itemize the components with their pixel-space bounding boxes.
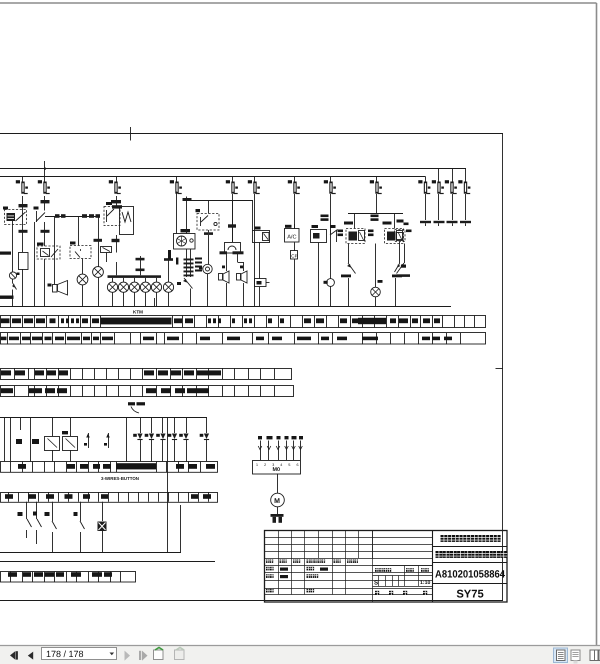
cluster lamp HL4 <box>118 282 128 306</box>
relay K11 <box>16 418 60 462</box>
frame centering mark top <box>130 127 132 141</box>
sub bus wire <box>348 214 403 229</box>
diode D1 <box>133 418 142 462</box>
bottom connector labels <box>8 572 112 577</box>
wire horn feed <box>54 216 56 284</box>
svg-text:6: 6 <box>297 463 299 467</box>
fuse F7 <box>288 177 300 194</box>
cluster lamp HL8 <box>163 255 173 307</box>
connector M0 pins <box>258 441 302 461</box>
sensor box U2 <box>98 502 107 552</box>
page number box <box>42 648 117 660</box>
pin arrow P2 <box>104 433 110 448</box>
AC amplifier box <box>285 225 300 242</box>
ignition start contact <box>177 278 193 307</box>
table row 3 <box>1 368 292 380</box>
svg-text:M0: M0 <box>273 467 281 473</box>
title block header labels <box>266 560 358 563</box>
speaker LS1 <box>219 266 230 307</box>
fuse F13 <box>458 169 470 194</box>
wire fuse F6 down <box>254 194 256 307</box>
title block outer border <box>265 531 508 603</box>
ignition switch S10 <box>174 229 196 249</box>
button next view <box>175 648 185 660</box>
fuse F9 <box>370 177 382 194</box>
fuse F11 <box>432 169 444 194</box>
motor mount symbol <box>271 507 284 523</box>
relay K1 contact <box>34 207 46 223</box>
signal table row 1 <box>1 316 486 328</box>
relay K4 box <box>120 207 134 235</box>
junction mark node D <box>19 200 123 233</box>
work lamp HL1 <box>77 259 88 307</box>
relay K2 <box>37 222 60 259</box>
lamp bank feed wires <box>113 278 157 282</box>
wire left drop 1 <box>12 221 14 307</box>
svg-text:KTM: KTM <box>133 310 143 315</box>
title block left grid <box>265 530 434 602</box>
connector row A <box>1 462 218 473</box>
drawing number A810201058864 <box>435 569 505 581</box>
fuse F5 <box>226 177 238 194</box>
wire K2 coil down <box>44 259 46 307</box>
toolbar background <box>0 645 600 664</box>
svg-text:1:10: 1:10 <box>420 580 430 586</box>
diode D3 <box>156 418 165 462</box>
svg-text:CP: CP <box>291 254 297 259</box>
wiper motor M1 <box>271 493 285 507</box>
cluster lamp HL7 <box>151 282 161 306</box>
svg-text:3-WIRES-BUTTON: 3-WIRES-BUTTON <box>101 476 139 481</box>
svg-text:A810201058864: A810201058864 <box>435 569 505 581</box>
horn H1 <box>48 281 68 296</box>
diode D2 <box>145 418 154 462</box>
power bus B+ wire <box>0 168 466 170</box>
label twin group right <box>371 215 379 221</box>
fuse F3 <box>109 177 121 194</box>
svg-text:5: 5 <box>288 463 290 467</box>
lower bus wire <box>0 417 207 419</box>
wire fuse F9 down <box>376 194 378 214</box>
horn unit box <box>225 206 241 253</box>
connector row A labels <box>18 463 215 469</box>
switch S5 <box>392 244 405 278</box>
label DLC node <box>128 402 145 413</box>
pdf page top edge <box>0 2 597 4</box>
junction mark node A <box>19 196 28 252</box>
svg-text:1: 1 <box>256 463 258 467</box>
signal table row 2 labels <box>1 337 453 341</box>
wire ignition feed <box>183 197 192 234</box>
relay K12 <box>62 418 78 462</box>
label resistor <box>0 252 11 255</box>
svg-text:M: M <box>274 498 280 505</box>
switch S9 <box>45 502 57 552</box>
pin arrow P1 <box>84 433 90 448</box>
buzzer B2 <box>199 264 212 306</box>
model SY75 <box>456 589 483 601</box>
svg-text:3: 3 <box>272 463 274 467</box>
bottom connector row <box>1 572 136 583</box>
frame centering mark right <box>496 368 504 370</box>
svg-text:4: 4 <box>280 463 282 467</box>
fuse F2 <box>38 177 50 194</box>
cluster lamp HL3 <box>107 282 117 306</box>
power bus ACC wire <box>0 176 426 178</box>
connector pair K5 out <box>204 230 213 264</box>
connector M0 pin labels <box>258 436 303 439</box>
speaker LS2 <box>237 266 248 307</box>
cluster lamp HL6 <box>140 282 150 306</box>
component U1 <box>255 243 270 307</box>
relay K6 <box>253 227 270 243</box>
fuse F6 <box>248 177 260 194</box>
button previous view <box>154 648 164 660</box>
wire fuse F7 down <box>294 194 296 229</box>
drawing title <box>436 551 508 558</box>
relay K7 <box>311 225 327 307</box>
layout facing pages <box>590 650 600 661</box>
compressor clutch C1 <box>324 279 335 307</box>
label bottom left <box>0 296 14 299</box>
title block right rows <box>433 547 507 584</box>
svg-text:2: 2 <box>264 463 266 467</box>
relay K8 labels <box>338 222 354 237</box>
svg-text:SY75: SY75 <box>456 589 483 601</box>
relay K9 labels <box>368 222 412 237</box>
connector M0 <box>253 461 301 475</box>
button last page <box>139 651 148 661</box>
ground bus wire <box>0 505 181 553</box>
label KTM <box>133 310 143 315</box>
section divider wire <box>0 561 215 563</box>
contact K7 <box>330 225 338 242</box>
indicator lamp HL9 <box>371 244 383 307</box>
wire M0 to motor <box>277 474 279 494</box>
switch box S3 <box>70 242 91 259</box>
title block row labels <box>266 567 328 593</box>
fuse F1 <box>16 177 28 194</box>
fuse F10 <box>418 177 430 194</box>
relay K10 <box>395 220 409 242</box>
wire fuse F5 down <box>232 194 234 242</box>
button first page <box>10 651 18 659</box>
wire fuse F8 down <box>330 194 332 279</box>
switch S4 <box>341 244 356 278</box>
connector row B <box>1 492 218 502</box>
wire fuse F4 down <box>176 192 178 234</box>
contact box X1 <box>101 247 112 253</box>
relay K8 <box>346 229 365 244</box>
diode D4 <box>168 418 177 462</box>
fuse F4 <box>170 177 182 194</box>
lower bus riser wire <box>167 418 169 552</box>
fuse F8 <box>324 177 336 194</box>
connector row B labels <box>5 494 211 499</box>
junction mark K4 <box>112 239 120 242</box>
rail stub wires <box>155 278 396 307</box>
stage mark sub table <box>373 566 434 587</box>
signal table row 1 labels <box>1 318 441 325</box>
title block company column divider <box>432 530 434 602</box>
relay K3 <box>104 196 120 226</box>
button previous page <box>28 652 33 660</box>
stage mark labels <box>374 568 430 595</box>
drawing frame border <box>0 134 503 602</box>
button next page <box>125 651 131 661</box>
sensor B1 <box>9 272 19 279</box>
ignition positions <box>168 249 202 277</box>
label 3-WIRES-BUTTON <box>101 476 139 481</box>
relay K5 <box>196 209 220 230</box>
svg-text:A/C: A/C <box>287 234 296 241</box>
wire AC top <box>294 224 296 229</box>
diode D6 <box>200 418 209 462</box>
work lamp HL2 <box>93 222 104 307</box>
table row 4 <box>1 386 294 397</box>
table row 3 labels <box>1 370 221 375</box>
fuse F12 <box>445 169 457 194</box>
wire lamp bus <box>78 246 80 248</box>
switch S6 <box>395 242 407 273</box>
layout continuous <box>571 650 580 664</box>
speaker wires <box>220 251 244 271</box>
switch S7 <box>18 502 32 538</box>
connector pair node C <box>45 214 100 245</box>
wire K4 down <box>107 235 117 262</box>
terminal bar S6 <box>397 274 411 277</box>
relay K1 <box>3 207 27 225</box>
switch S2 <box>12 279 17 294</box>
lamp bank bus bar <box>108 256 162 278</box>
switch S11 <box>74 502 85 552</box>
junction mark node B <box>41 196 50 211</box>
bus feed stub node <box>44 161 46 177</box>
svg-text:S: S <box>374 579 378 586</box>
fuse cluster output terminals <box>420 194 471 226</box>
wires mid lower <box>126 418 128 462</box>
relay K9 <box>385 229 404 244</box>
left lower wires <box>5 418 31 462</box>
signal table row 2 <box>1 333 486 345</box>
diode D5 <box>179 418 188 462</box>
svg-text:178 / 178: 178 / 178 <box>46 649 84 659</box>
wire top link <box>187 201 253 231</box>
label twin group left <box>321 215 329 221</box>
wire left drop 3 <box>34 222 36 307</box>
resistor R1 <box>19 253 29 307</box>
schematic bottom terminal rail <box>0 306 451 308</box>
pdf page right edge <box>596 3 598 645</box>
layout single page selected <box>554 648 568 663</box>
cluster lamp HL5 <box>129 282 139 306</box>
CP box <box>291 243 298 307</box>
table row 4 labels <box>1 388 209 393</box>
company name <box>441 535 501 542</box>
switch S8 <box>33 502 42 544</box>
